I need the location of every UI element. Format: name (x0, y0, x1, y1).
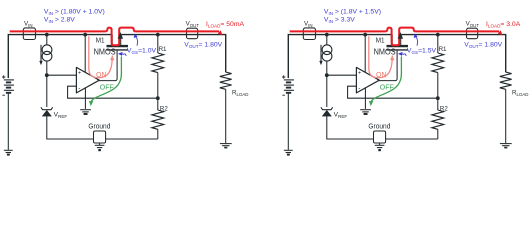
wire current-source branch B (326, 35, 328, 45)
wire top rail VOUT segment B (401, 35, 506, 73)
svg-text:OFF: OFF (380, 84, 394, 91)
wire op-amp V- to ground B (364, 88, 366, 109)
wire RLOAD to ground B (505, 89, 507, 143)
svg-text:+: + (78, 71, 81, 77)
current source I1 B (322, 45, 332, 55)
wire VREF node to op-amp + input B (327, 74, 357, 76)
resistor R1 B (432, 53, 444, 73)
resistor R2 B (432, 110, 444, 129)
OFF drive arrow A (91, 56, 121, 101)
wire R2 to bottom rail B (437, 129, 439, 139)
svg-text:+: + (358, 71, 361, 77)
red current path A (10, 28, 219, 46)
wire feedback from - input to divider node A (68, 86, 158, 98)
battery VIN source B (284, 80, 294, 93)
svg-text:-: - (358, 85, 360, 92)
svg-text:VIN > (1.8V + 1.5V): VIN > (1.8V + 1.5V) (324, 8, 381, 16)
zener diode VREF B (322, 110, 331, 116)
svg-text:R1: R1 (439, 46, 447, 53)
svg-text:VGS=1.0V: VGS=1.0V (127, 48, 157, 56)
red current arrowhead B (498, 30, 503, 35)
transistor M1 source arrow A (118, 32, 123, 39)
transistor M1 source lead B (400, 35, 402, 46)
svg-text:R2: R2 (160, 105, 168, 112)
resistor R2 A (152, 110, 164, 129)
ground symbol battery B (284, 150, 293, 154)
wire battery to ground B (287, 94, 289, 150)
node VREF/op-amp + input junction A (45, 73, 49, 77)
op-amp U1 A (76, 67, 99, 93)
svg-text:VGS=1.5V: VGS=1.5V (407, 48, 437, 56)
svg-text:VIN > 2.8V: VIN > 2.8V (44, 16, 75, 24)
svg-text:VIN > (1.80V + 1.0V): VIN > (1.80V + 1.0V) (44, 8, 105, 16)
svg-text:Ground: Ground (88, 121, 110, 130)
svg-text:ON: ON (376, 72, 387, 79)
svg-text:VIN: VIN (304, 21, 313, 28)
current source I1 A (42, 45, 52, 55)
connector box VOUT A (187, 28, 198, 39)
wire current-source branch A (46, 35, 48, 45)
wire R2 to bottom rail A (157, 129, 159, 139)
wire battery to ground A (7, 94, 9, 150)
VGS source probe arrow A (136, 37, 138, 46)
zener diode VREF A (42, 110, 51, 116)
wire op-amp V+ supply pin B (364, 35, 366, 73)
resistor RLOAD A (220, 72, 232, 89)
wire R1 to feedback node B (437, 73, 439, 99)
node rail/op-amp supply junction B (363, 33, 367, 37)
wire feedback from - input to divider node B (348, 86, 438, 98)
svg-text:VREF: VREF (334, 111, 348, 119)
wire bottom rail ground box A (94, 131, 106, 143)
battery VIN source A (4, 80, 14, 93)
VGS gate probe arrow B (398, 52, 403, 56)
wire current-source to VREF node A (46, 61, 48, 107)
svg-text:VOUT: VOUT (466, 21, 480, 28)
wire current-source to VREF node B (326, 61, 328, 107)
svg-text:R2: R2 (440, 105, 448, 112)
resistor R1 A (152, 53, 164, 73)
red current arrowhead A (218, 30, 223, 35)
svg-text:M1: M1 (376, 38, 385, 45)
wire top rail VOUT segment A (121, 35, 226, 73)
svg-text:VOUT= 1.80V: VOUT= 1.80V (184, 41, 222, 49)
ground symbol RLOAD B (500, 144, 512, 148)
transistor M1 drain lead B (391, 35, 393, 46)
svg-text:VOUT= 1.80V: VOUT= 1.80V (464, 41, 502, 49)
transistor M1 channel bar B (387, 45, 409, 47)
VGS source probe arrow B (416, 37, 418, 46)
svg-text:-: - (78, 85, 80, 92)
svg-text:OFF: OFF (100, 84, 114, 91)
ground symbol op-amp B (360, 110, 371, 114)
wire R1 branch A (157, 35, 159, 53)
wire R1 to feedback node A (157, 73, 159, 99)
ground symbol RLOAD A (220, 144, 232, 148)
transistor M1 channel bar A (107, 45, 129, 47)
svg-text:ILOAD= 3.0A: ILOAD= 3.0A (486, 21, 521, 29)
node rail/R1 junction A (156, 33, 160, 37)
transistor M1 drain lead A (111, 35, 113, 46)
wire RLOAD to ground A (225, 89, 227, 143)
svg-text:Ground: Ground (368, 121, 390, 130)
node rail/current-source junction A (45, 33, 49, 37)
connector box VIN B (303, 28, 315, 40)
ground symbol below ground box B (379, 143, 381, 145)
ground symbol op-amp A (80, 110, 91, 114)
current source arrow A (40, 45, 42, 61)
wire op-amp output to gate B (379, 51, 397, 81)
wire zener to bottom rail B (327, 116, 438, 139)
svg-text:VOUT: VOUT (186, 21, 200, 28)
wire op-amp V- to ground A (84, 88, 86, 109)
svg-text:ON: ON (96, 72, 107, 79)
node rail/current-source junction B (325, 33, 329, 37)
red current path B (290, 28, 499, 46)
transistor M1 gate bar B (387, 49, 409, 51)
ground symbol battery A (4, 150, 13, 154)
transistor M1 source arrow B (398, 32, 403, 39)
svg-text:VIN: VIN (24, 21, 33, 28)
svg-text:R1: R1 (159, 46, 167, 53)
wire op-amp V+ supply pin A (84, 35, 86, 73)
ON drive arrow B (369, 36, 392, 78)
svg-text:VIN > 3.3V: VIN > 3.3V (324, 16, 355, 24)
node rail/op-amp supply junction A (83, 33, 87, 37)
ground symbol below ground box A (99, 143, 101, 145)
current source arrow B (320, 45, 322, 61)
node feedback divider junction B (436, 96, 440, 100)
wire top rail VIN segment B (288, 35, 391, 79)
wire bottom rail ground box B (374, 131, 386, 143)
ON drive arrow A (89, 36, 112, 78)
svg-text:ILOAD= 50mA: ILOAD= 50mA (206, 21, 244, 29)
svg-text:VREF: VREF (54, 111, 68, 119)
svg-text:RLOAD: RLOAD (512, 89, 528, 97)
wire feedback node to R2 B (437, 98, 439, 110)
node feedback divider junction A (156, 96, 160, 100)
transistor M1 source lead A (120, 35, 122, 46)
svg-text:M1: M1 (96, 38, 105, 45)
wire feedback node to R2 A (157, 98, 159, 110)
wire zener to bottom rail A (47, 116, 158, 139)
OFF drive arrow B (371, 56, 401, 101)
connector box VIN A (23, 28, 35, 40)
transistor M1 gate bar A (107, 49, 129, 51)
VGS gate probe arrow A (118, 52, 123, 56)
wire VREF node to op-amp + input A (47, 74, 77, 76)
wire op-amp output to gate A (99, 51, 117, 81)
node VREF/op-amp + input junction B (325, 73, 329, 77)
op-amp U1 B (356, 67, 379, 93)
wire top rail VIN segment A (8, 35, 111, 79)
wire R1 branch B (437, 35, 439, 53)
resistor RLOAD B (500, 72, 512, 89)
node rail/R1 junction B (436, 33, 440, 37)
connector box VOUT B (467, 28, 478, 39)
svg-text:RLOAD: RLOAD (232, 89, 248, 97)
